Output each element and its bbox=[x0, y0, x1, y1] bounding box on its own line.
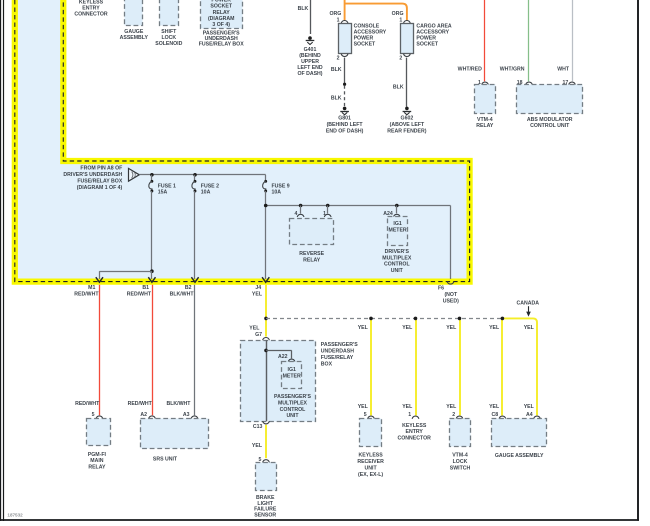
svg-text:(DIAGRAM: (DIAGRAM bbox=[208, 16, 235, 22]
svg-text:ENTRY: ENTRY bbox=[406, 429, 424, 435]
svg-text:FUSE/RELAY: FUSE/RELAY bbox=[321, 355, 354, 361]
svg-text:SOCKET: SOCKET bbox=[354, 41, 376, 47]
svg-text:UNIT: UNIT bbox=[286, 413, 299, 419]
svg-text:MULTIPLEX: MULTIPLEX bbox=[278, 400, 308, 406]
svg-text:REAR FENDER): REAR FENDER) bbox=[387, 128, 426, 134]
svg-text:WHT/GRN: WHT/GRN bbox=[500, 66, 525, 72]
svg-text:KEYLESS: KEYLESS bbox=[402, 423, 427, 429]
svg-text:METER: METER bbox=[283, 373, 301, 379]
svg-text:5: 5 bbox=[364, 412, 367, 418]
svg-text:YEL: YEL bbox=[524, 404, 535, 410]
svg-text:BLK: BLK bbox=[298, 6, 309, 12]
svg-text:BLK: BLK bbox=[331, 67, 342, 73]
svg-text:GAUGE ASSEMBLY: GAUGE ASSEMBLY bbox=[495, 453, 544, 459]
svg-text:YEL: YEL bbox=[402, 404, 413, 410]
svg-text:G602: G602 bbox=[401, 116, 414, 122]
svg-text:YEL: YEL bbox=[358, 404, 369, 410]
svg-text:YEL: YEL bbox=[402, 325, 413, 331]
svg-text:B2: B2 bbox=[185, 285, 192, 291]
svg-text:RELAY: RELAY bbox=[88, 465, 106, 471]
svg-text:(DIAGRAM 1 OF 4): (DIAGRAM 1 OF 4) bbox=[77, 185, 123, 191]
svg-text:A2: A2 bbox=[140, 412, 147, 418]
svg-text:2: 2 bbox=[337, 56, 340, 62]
svg-text:G7: G7 bbox=[255, 332, 262, 338]
svg-text:G801: G801 bbox=[338, 116, 351, 122]
svg-text:10A: 10A bbox=[272, 190, 282, 196]
svg-text:VTM-4: VTM-4 bbox=[452, 453, 468, 459]
svg-text:A3: A3 bbox=[183, 412, 190, 418]
svg-text:C13: C13 bbox=[253, 424, 263, 430]
svg-text:DRIVER'S: DRIVER'S bbox=[385, 249, 410, 255]
svg-text:WHT/RED: WHT/RED bbox=[458, 66, 482, 72]
svg-text:2: 2 bbox=[399, 56, 402, 62]
svg-text:CONNECTOR: CONNECTOR bbox=[74, 12, 108, 18]
svg-text:A22: A22 bbox=[278, 354, 288, 360]
svg-text:1: 1 bbox=[337, 17, 340, 23]
svg-text:UNDERDASH: UNDERDASH bbox=[321, 349, 354, 355]
svg-text:REVERSE: REVERSE bbox=[299, 251, 324, 257]
svg-text:FUSE/RELAY BOX: FUSE/RELAY BOX bbox=[199, 42, 245, 48]
svg-text:1: 1 bbox=[408, 412, 411, 418]
svg-text:DRIVER'S UNDERDASH: DRIVER'S UNDERDASH bbox=[63, 172, 122, 178]
svg-text:A4: A4 bbox=[526, 412, 533, 418]
svg-text:MAIN: MAIN bbox=[90, 458, 104, 464]
svg-text:ASSEMBLY: ASSEMBLY bbox=[120, 35, 149, 41]
svg-text:10A: 10A bbox=[201, 190, 211, 196]
svg-text:RELAY: RELAY bbox=[476, 123, 494, 129]
svg-text:J4: J4 bbox=[255, 285, 261, 291]
svg-text:USED): USED) bbox=[443, 298, 459, 304]
svg-text:2: 2 bbox=[452, 412, 455, 418]
svg-text:BOX: BOX bbox=[321, 361, 333, 367]
svg-text:F6: F6 bbox=[438, 286, 444, 292]
svg-text:YEL: YEL bbox=[249, 326, 260, 332]
svg-text:IG1: IG1 bbox=[393, 221, 401, 227]
svg-text:LOCK: LOCK bbox=[453, 459, 468, 465]
svg-text:YEL: YEL bbox=[524, 325, 535, 331]
svg-text:BLK/WHT: BLK/WHT bbox=[166, 401, 191, 407]
svg-text:YEL: YEL bbox=[446, 404, 457, 410]
svg-text:CONTROL UNIT: CONTROL UNIT bbox=[530, 123, 570, 129]
svg-text:CONTROL: CONTROL bbox=[280, 407, 306, 413]
svg-text:YEL: YEL bbox=[489, 404, 500, 410]
svg-text:RED/WHT: RED/WHT bbox=[75, 401, 100, 407]
svg-text:SOCKET: SOCKET bbox=[416, 41, 438, 47]
svg-text:RED/WHT: RED/WHT bbox=[128, 401, 153, 407]
svg-text:FUSE/RELAY BOX: FUSE/RELAY BOX bbox=[77, 179, 123, 185]
svg-text:UNIT: UNIT bbox=[365, 465, 378, 471]
svg-text:1: 1 bbox=[399, 17, 402, 23]
svg-text:ORG: ORG bbox=[329, 11, 341, 17]
svg-text:RED/WHT: RED/WHT bbox=[127, 292, 152, 298]
svg-text:SWITCH: SWITCH bbox=[450, 465, 471, 471]
svg-text:RECEIVER: RECEIVER bbox=[357, 459, 384, 465]
svg-text:YEL: YEL bbox=[252, 443, 263, 449]
svg-text:RED/WHT: RED/WHT bbox=[74, 292, 99, 298]
svg-text:BLK: BLK bbox=[331, 96, 342, 102]
svg-text:RELAY: RELAY bbox=[213, 10, 231, 16]
svg-text:(ABOVE LEFT: (ABOVE LEFT bbox=[390, 122, 425, 128]
svg-text:C8: C8 bbox=[491, 412, 498, 418]
svg-text:END OF DASH): END OF DASH) bbox=[326, 128, 364, 134]
svg-text:SENSOR: SENSOR bbox=[254, 513, 276, 519]
svg-text:METER: METER bbox=[389, 228, 407, 234]
svg-text:RELAY: RELAY bbox=[303, 257, 321, 263]
svg-text:YEL: YEL bbox=[252, 292, 263, 298]
svg-text:FUSE 2: FUSE 2 bbox=[201, 183, 219, 189]
svg-text:YEL: YEL bbox=[489, 325, 500, 331]
svg-text:OF DASH): OF DASH) bbox=[297, 71, 322, 77]
svg-text:PASSENGER'S: PASSENGER'S bbox=[274, 394, 311, 400]
svg-text:(BEHIND LEFT: (BEHIND LEFT bbox=[327, 122, 364, 128]
svg-text:15A: 15A bbox=[158, 190, 168, 196]
svg-text:KEYLESS: KEYLESS bbox=[358, 453, 383, 459]
svg-text:5: 5 bbox=[92, 412, 95, 418]
svg-text:MULTIPLEX: MULTIPLEX bbox=[382, 255, 412, 261]
svg-text:PGM-FI: PGM-FI bbox=[88, 452, 107, 458]
svg-text:WHT: WHT bbox=[557, 66, 570, 72]
svg-text:B1: B1 bbox=[142, 285, 149, 291]
svg-text:187532: 187532 bbox=[7, 513, 23, 518]
svg-text:(NOT: (NOT bbox=[444, 292, 458, 298]
svg-text:M1: M1 bbox=[88, 285, 95, 291]
svg-text:CONNECTOR: CONNECTOR bbox=[398, 436, 432, 442]
svg-text:UNIT: UNIT bbox=[391, 268, 404, 274]
svg-text:IG1: IG1 bbox=[288, 367, 296, 373]
svg-text:BLK/WHT: BLK/WHT bbox=[170, 292, 195, 298]
svg-text:SOLENOID: SOLENOID bbox=[155, 41, 182, 47]
svg-text:(EX, EX-L): (EX, EX-L) bbox=[358, 472, 383, 478]
svg-text:FROM PIN A8 OF: FROM PIN A8 OF bbox=[80, 166, 122, 172]
svg-text:SRS UNIT: SRS UNIT bbox=[153, 457, 178, 463]
svg-text:3 OF 4): 3 OF 4) bbox=[212, 22, 230, 28]
svg-text:YEL: YEL bbox=[358, 325, 369, 331]
svg-text:FUSE 1: FUSE 1 bbox=[158, 183, 176, 189]
svg-text:CONTROL: CONTROL bbox=[384, 262, 410, 268]
svg-text:YEL: YEL bbox=[446, 325, 457, 331]
svg-text:SOCKET: SOCKET bbox=[210, 4, 232, 10]
svg-text:FUSE 9: FUSE 9 bbox=[272, 183, 290, 189]
svg-text:ORG: ORG bbox=[392, 11, 404, 17]
svg-text:BLK: BLK bbox=[393, 85, 404, 91]
svg-text:PASSENGER'S: PASSENGER'S bbox=[321, 342, 358, 348]
svg-text:CANADA: CANADA bbox=[517, 301, 540, 307]
